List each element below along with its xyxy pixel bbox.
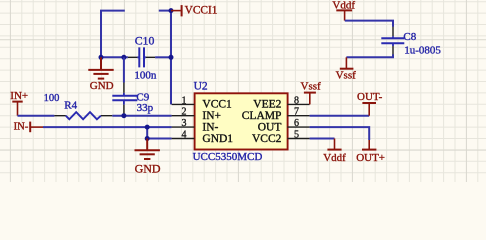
op-amp/isolator U2 body: [193, 81, 288, 163]
power Vssf above pin8: [301, 80, 322, 104]
wire net VCCI1 top-left horizontal: [101, 11, 125, 58]
wire vertical IN- to GND: [146, 127, 148, 138]
node junction C9/IN+: [121, 113, 126, 118]
svg-text:OUT: OUT: [258, 121, 282, 133]
wire C8 to Vssf: [346, 54, 393, 57]
svg-text:GND: GND: [90, 80, 114, 92]
pin 5 VCC2: [252, 129, 310, 144]
svg-text:100: 100: [44, 93, 60, 104]
svg-text:Vddf: Vddf: [323, 152, 346, 164]
wire top to VCCI1 junction: [159, 10, 171, 12]
wire pin7 to OUT-: [310, 115, 370, 117]
port OUT+: [356, 140, 385, 164]
capacitor C8: [381, 27, 441, 57]
wire pin6 to OUT+: [310, 127, 370, 140]
svg-text:4: 4: [182, 129, 187, 140]
node junction C10 right: [169, 55, 174, 60]
wire GND1 row (to U2 pin4): [147, 138, 171, 140]
port OUT-: [357, 91, 383, 116]
pin 6 OUT: [258, 118, 310, 133]
power Vddf top-right: [332, 0, 355, 21]
svg-text:IN+: IN+: [202, 110, 221, 122]
svg-text:VCC1: VCC1: [202, 99, 232, 111]
wire vertical VCCI1 column to U2 pin1: [170, 11, 172, 105]
port IN-: [14, 121, 43, 132]
wire horizontal C10 row left: [101, 56, 128, 58]
power Vssf top-right: [336, 57, 357, 81]
capacitor C10: [128, 33, 157, 81]
node junction IN- row: [145, 125, 150, 130]
svg-text:OUT-: OUT-: [357, 91, 383, 103]
pin 7 CLAMP: [242, 107, 310, 122]
svg-text:U2: U2: [194, 81, 208, 93]
svg-text:CLAMP: CLAMP: [242, 110, 282, 122]
power Vddf below pin5: [323, 139, 346, 165]
svg-text:C8: C8: [403, 31, 416, 43]
wire pin5 to Vddf: [310, 138, 335, 140]
wire IN- row (to U2 pin3): [43, 126, 172, 128]
svg-text:GND: GND: [135, 162, 161, 176]
svg-text:100n: 100n: [134, 70, 157, 82]
svg-text:R4: R4: [64, 100, 77, 112]
svg-text:C10: C10: [135, 33, 155, 47]
resistor R4: [54, 100, 112, 120]
svg-text:2: 2: [182, 107, 187, 118]
svg-text:IN-: IN-: [202, 121, 218, 133]
node junction GND row: [145, 136, 150, 141]
node junction VCCI1: [169, 8, 174, 13]
pin 4 GND1: [172, 129, 234, 144]
svg-text:IN+: IN+: [10, 90, 28, 102]
svg-text:GND1: GND1: [202, 133, 233, 145]
svg-text:6: 6: [294, 118, 299, 129]
wire IN+ row right (to U2 pin2): [112, 115, 171, 117]
pin 2 IN+: [172, 107, 221, 122]
svg-text:8: 8: [294, 95, 299, 106]
svg-text:Vssf: Vssf: [336, 70, 357, 82]
svg-text:Vssf: Vssf: [301, 80, 322, 92]
ground GND1 (left): [88, 57, 113, 78]
pin 1 VCC1: [172, 95, 232, 110]
svg-text:5: 5: [294, 129, 299, 140]
grid minor: [0, 0, 486, 182]
svg-text:1: 1: [182, 95, 187, 106]
node junction GND/C10: [99, 55, 104, 60]
svg-text:VCCI1: VCCI1: [185, 4, 218, 16]
pin 3 IN-: [172, 118, 219, 133]
svg-text:VCC2: VCC2: [252, 133, 282, 145]
wire C9 branch upper: [123, 57, 125, 82]
node junction C9 top: [121, 55, 126, 60]
svg-text:IN-: IN-: [14, 121, 29, 132]
pin 8 VEE2: [253, 95, 309, 110]
svg-text:OUT+: OUT+: [356, 152, 385, 164]
wire horizontal C10 row right: [155, 56, 171, 58]
svg-text:33p: 33p: [137, 102, 154, 114]
capacitor C9: [112, 83, 153, 116]
ground GND2 (center): [135, 139, 160, 160]
svg-text:7: 7: [294, 107, 299, 118]
port IN+: [10, 90, 28, 116]
svg-text:UCC5350MCD: UCC5350MCD: [193, 151, 263, 163]
grid major: [0, 0, 486, 182]
svg-text:3: 3: [182, 118, 187, 129]
svg-text:VEE2: VEE2: [253, 99, 281, 111]
power port VCCI1: [171, 4, 218, 16]
svg-text:1u-0805: 1u-0805: [404, 45, 441, 57]
wire IN+ row left: [18, 115, 55, 117]
wire Vddf to C8: [345, 21, 393, 27]
